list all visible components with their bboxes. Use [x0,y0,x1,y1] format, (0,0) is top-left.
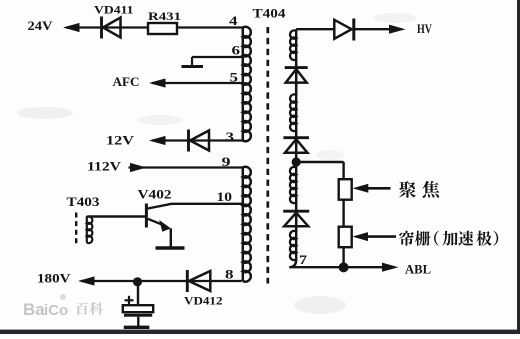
svg-text:T403: T403 [67,195,100,209]
svg-text:VD412: VD412 [184,294,223,308]
svg-text:9: 9 [222,154,232,169]
svg-text:112V: 112V [87,159,122,174]
svg-text:V402: V402 [138,188,172,202]
svg-text:iCo: iCo [44,302,68,319]
svg-text:Ba: Ba [23,300,45,319]
svg-text:24V: 24V [28,18,54,33]
svg-text:8: 8 [225,267,234,282]
svg-text:R431: R431 [148,9,181,23]
svg-text:12V: 12V [106,133,135,148]
svg-text:ABL: ABL [405,262,431,277]
svg-text:VD411: VD411 [94,3,134,17]
svg-text:AFC: AFC [113,75,140,89]
svg-text:HV: HV [417,21,432,36]
svg-text:3: 3 [226,129,235,144]
svg-text:180V: 180V [37,271,71,286]
svg-text:6: 6 [232,43,241,58]
svg-text:7: 7 [299,252,308,267]
svg-text:10: 10 [217,189,233,204]
svg-text:4: 4 [229,13,238,28]
svg-text:T404: T404 [253,7,287,21]
svg-text:5: 5 [230,70,239,85]
